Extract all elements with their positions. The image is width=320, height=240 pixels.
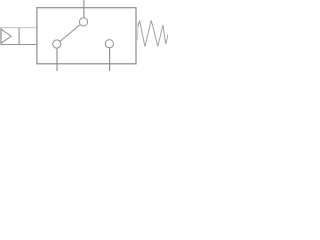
spring zigzag (138, 20, 169, 46)
actuator triangle (1, 29, 11, 43)
actuator plunger divider (18, 28, 20, 45)
right contact circle (105, 40, 113, 48)
actuator plunger left edge (0, 28, 2, 45)
spring left termination (136, 23, 139, 41)
common pin wire (56, 48, 58, 71)
switch body box (37, 8, 136, 64)
top pin wire (83, 0, 85, 18)
switch lever wire (60, 24, 80, 41)
actuator plunger bottom line (1, 44, 37, 46)
top contact circle (79, 18, 87, 26)
common contact circle (53, 40, 61, 48)
right pin wire (109, 48, 111, 71)
actuator plunger top line (1, 27, 37, 29)
